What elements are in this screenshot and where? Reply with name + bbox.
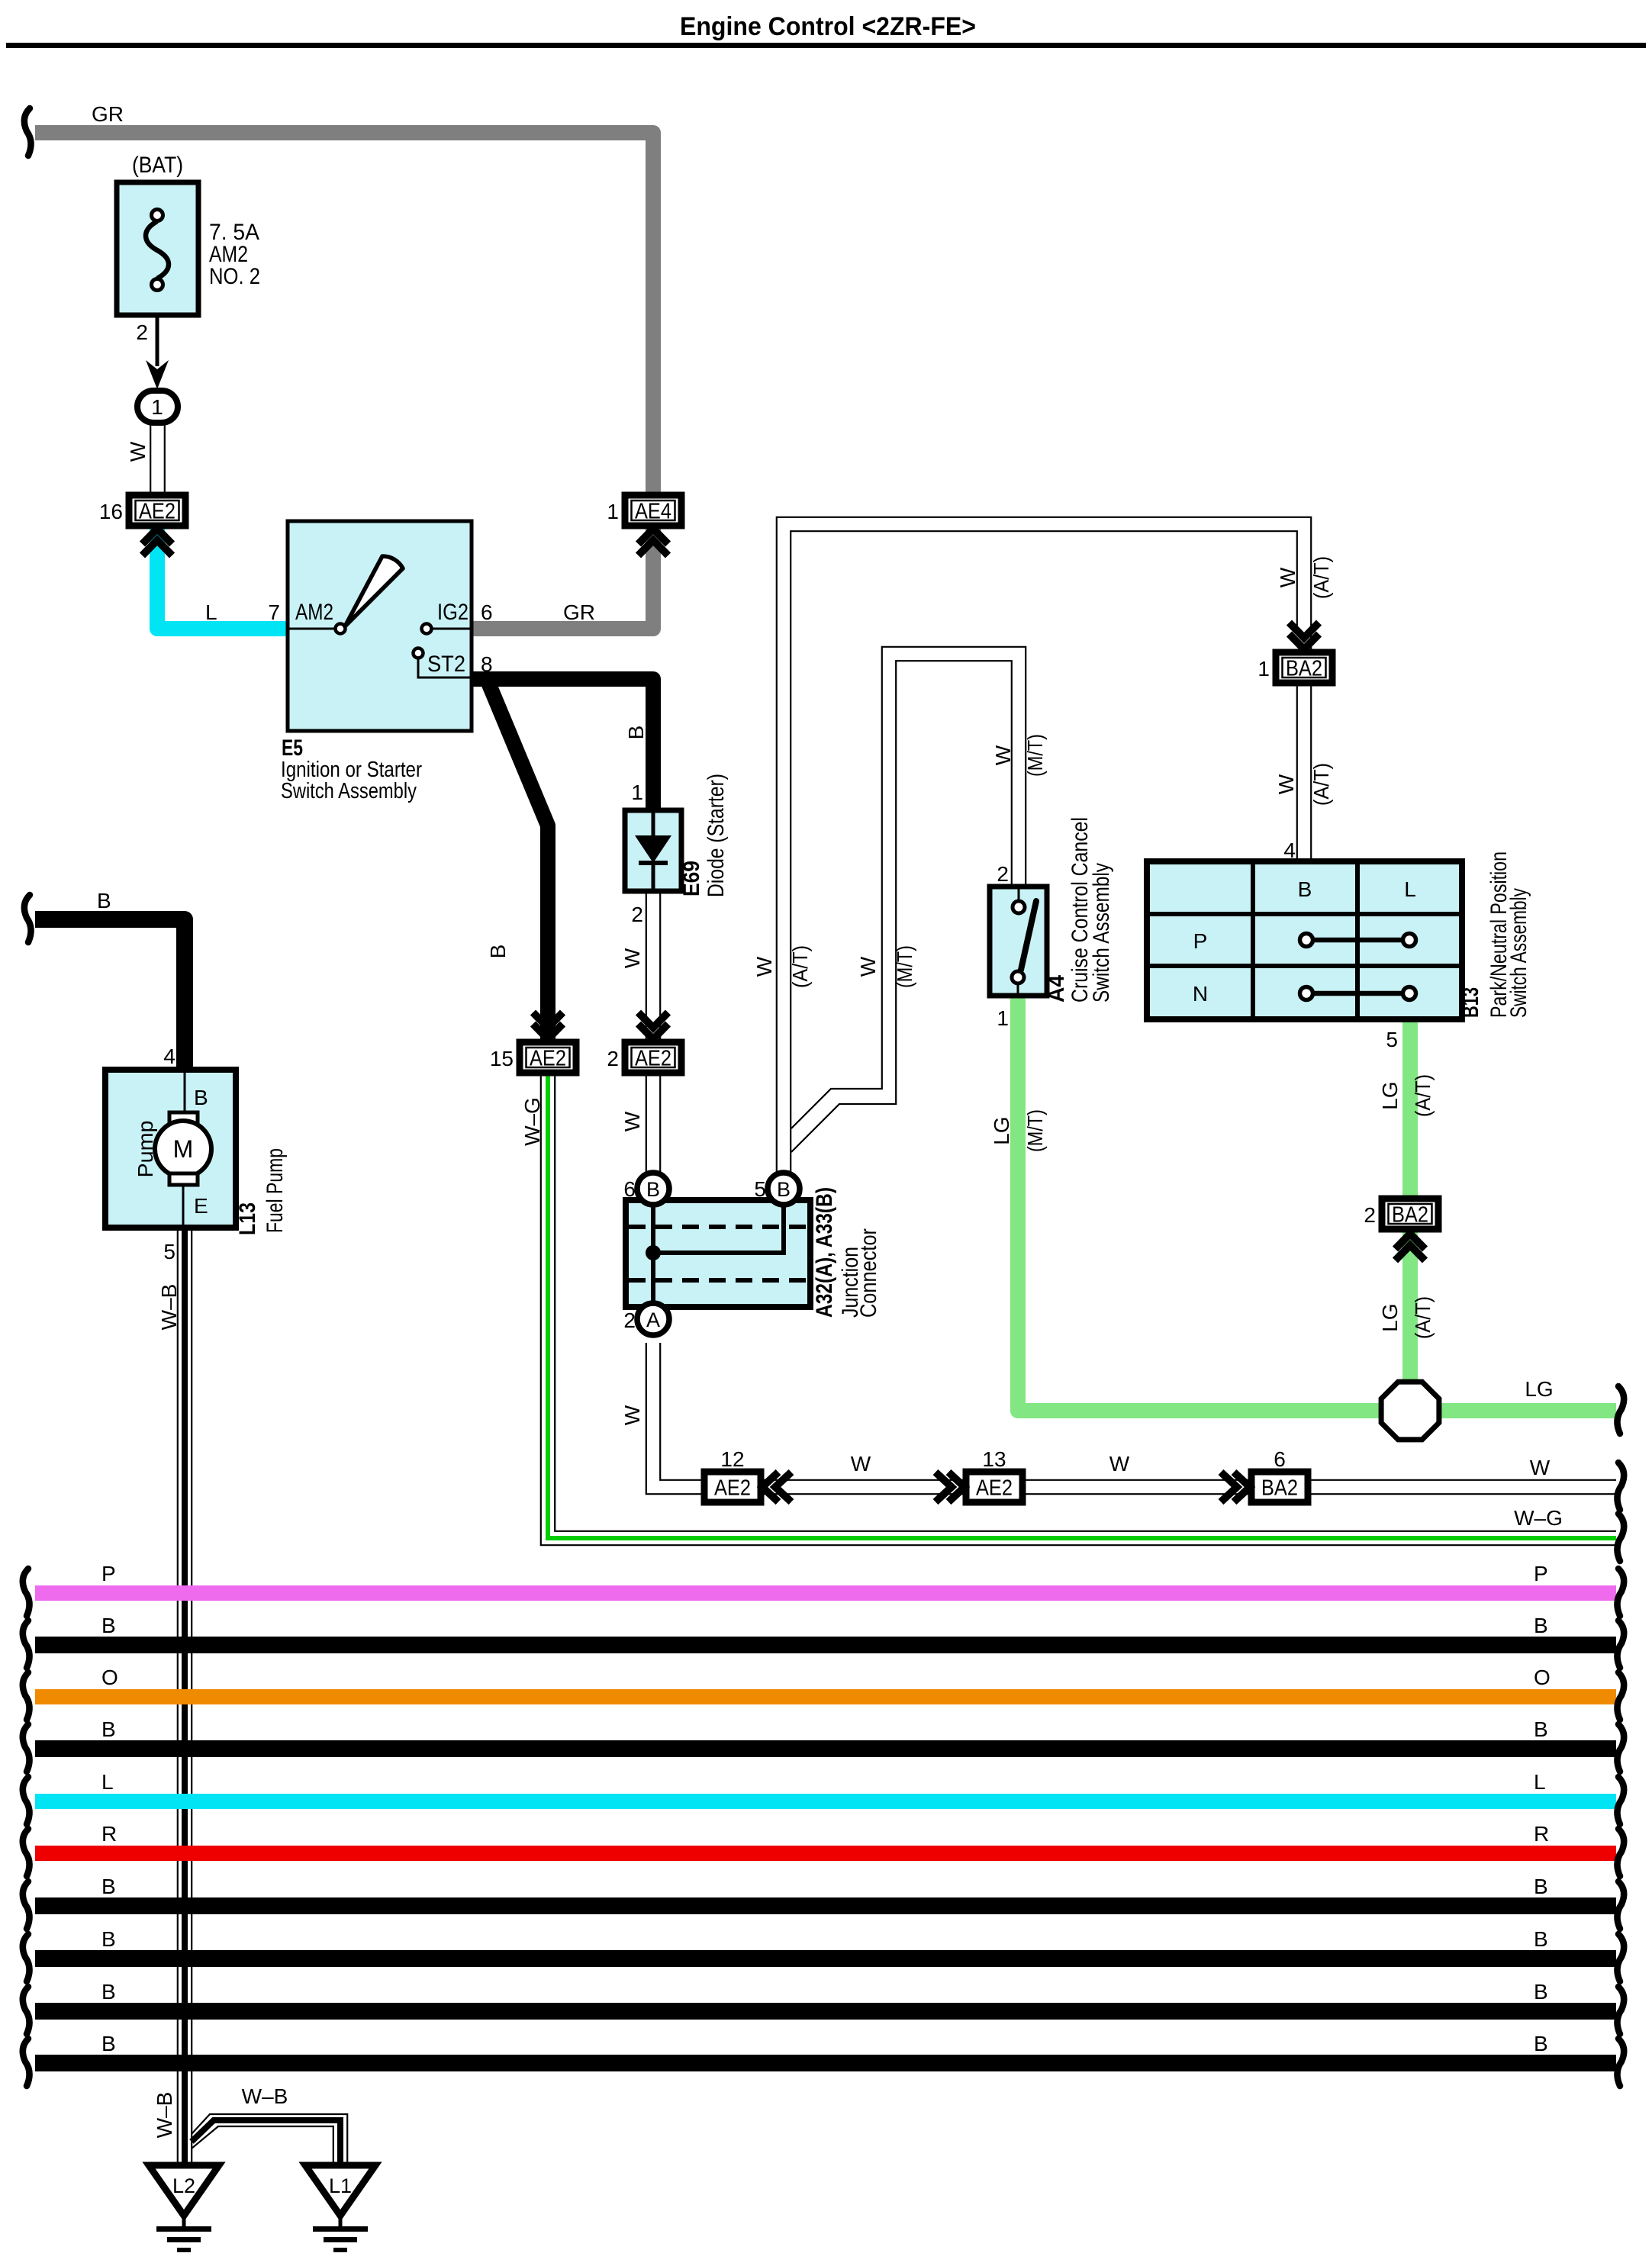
svg-text:1: 1 [631,781,643,804]
svg-text:(A/T): (A/T) [1411,1296,1435,1339]
svg-text:AE4: AE4 [635,500,671,524]
svg-text:2: 2 [136,320,148,344]
svg-text:1: 1 [607,500,619,523]
svg-text:E69: E69 [679,861,704,896]
svg-text:W: W [856,956,880,977]
svg-text:5: 5 [163,1240,176,1263]
svg-text:1: 1 [1258,657,1270,681]
svg-text:L: L [205,600,217,624]
svg-text:W–G: W–G [1514,1506,1563,1530]
svg-text:O: O [101,1666,118,1689]
svg-text:W: W [752,956,776,977]
svg-text:1: 1 [151,395,163,419]
svg-text:BA2: BA2 [1286,657,1322,681]
svg-text:13: 13 [982,1447,1006,1471]
svg-text:B: B [1534,2032,1548,2055]
svg-text:A32(A), A33(B): A32(A), A33(B) [812,1187,837,1318]
svg-text:W: W [620,948,644,968]
svg-text:7: 7 [268,600,280,624]
svg-text:6: 6 [481,600,493,624]
svg-text:AE2: AE2 [530,1047,566,1071]
svg-text:12: 12 [720,1447,744,1471]
svg-text:P: P [1534,1562,1548,1585]
svg-text:A4: A4 [1044,975,1069,1003]
svg-text:B: B [1534,1614,1548,1637]
svg-text:L2: L2 [172,2174,195,2197]
svg-text:IG2: IG2 [437,600,469,625]
svg-text:(M/T): (M/T) [1023,734,1047,777]
svg-text:Switch Assembly: Switch Assembly [1506,888,1531,1018]
svg-text:BA2: BA2 [1261,1476,1298,1501]
svg-text:W: W [1109,1452,1130,1476]
svg-text:W: W [991,745,1015,765]
svg-text:6: 6 [1274,1447,1286,1471]
svg-text:R: R [101,1822,117,1846]
svg-text:B: B [1534,1980,1548,2004]
svg-text:B: B [101,1927,116,1951]
svg-text:AE2: AE2 [635,1047,671,1071]
svg-text:Diode (Starter): Diode (Starter) [704,774,729,897]
svg-text:4: 4 [163,1044,176,1068]
svg-text:L: L [1404,877,1416,901]
svg-text:AE2: AE2 [976,1476,1013,1501]
svg-text:Switch Assembly: Switch Assembly [281,779,417,803]
svg-text:B: B [1534,1927,1548,1951]
svg-text:Fuel Pump: Fuel Pump [262,1148,288,1233]
svg-text:ST2: ST2 [427,652,465,677]
svg-text:AE2: AE2 [714,1476,751,1501]
svg-text:W: W [1274,774,1298,794]
svg-text:2: 2 [1364,1203,1376,1227]
svg-text:B: B [101,1717,116,1741]
svg-text:1: 1 [997,1006,1009,1030]
svg-text:B: B [101,1614,116,1637]
svg-text:M: M [173,1135,194,1163]
svg-text:R: R [1534,1822,1549,1846]
svg-text:NO. 2: NO. 2 [209,264,260,289]
svg-text:4: 4 [1283,838,1296,862]
svg-text:W: W [620,1405,644,1425]
svg-text:B13: B13 [1458,987,1483,1018]
svg-text:(A/T): (A/T) [1411,1074,1435,1117]
svg-text:O: O [1534,1666,1551,1689]
svg-text:(BAT): (BAT) [132,153,183,178]
svg-text:Pump: Pump [134,1121,157,1178]
svg-text:Engine Control <2ZR-FE>: Engine Control <2ZR-FE> [680,12,976,41]
svg-text:B: B [101,1980,116,2004]
svg-text:L: L [101,1770,114,1794]
svg-text:P: P [101,1562,116,1585]
svg-text:N: N [1193,982,1208,1006]
svg-text:2: 2 [631,903,643,926]
svg-text:B: B [97,889,111,913]
svg-text:B: B [646,1178,660,1201]
svg-text:L: L [1534,1770,1546,1794]
svg-text:5: 5 [754,1177,766,1201]
svg-text:W: W [620,1111,644,1131]
svg-text:W–B: W–B [157,1284,181,1331]
svg-text:2: 2 [997,862,1009,886]
svg-text:15: 15 [490,1047,514,1070]
svg-text:L1: L1 [329,2174,352,2197]
svg-text:L13: L13 [235,1202,260,1235]
svg-text:BA2: BA2 [1392,1203,1428,1228]
svg-text:A: A [646,1308,660,1331]
svg-text:GR: GR [563,600,595,624]
svg-text:E: E [194,1194,208,1218]
svg-text:5: 5 [1386,1028,1398,1051]
svg-text:2: 2 [623,1308,636,1332]
svg-text:LG: LG [1378,1081,1402,1109]
svg-text:(A/T): (A/T) [788,945,812,988]
svg-text:AE2: AE2 [139,500,176,524]
svg-text:(M/T): (M/T) [1023,1109,1047,1152]
svg-text:Switch Assembly: Switch Assembly [1089,863,1114,1003]
svg-text:B: B [1298,877,1312,901]
svg-text:W–B: W–B [242,2084,288,2108]
svg-text:(M/T): (M/T) [893,945,916,988]
svg-text:W–B: W–B [153,2092,176,2139]
svg-text:GR: GR [92,102,124,126]
svg-text:LG: LG [1378,1303,1402,1331]
svg-text:B: B [194,1086,208,1109]
svg-text:6: 6 [623,1177,636,1201]
svg-text:W: W [1530,1456,1551,1479]
svg-text:W: W [851,1452,871,1476]
svg-text:AM2: AM2 [295,600,333,625]
svg-text:8: 8 [481,652,493,676]
svg-text:B: B [1534,1717,1548,1741]
svg-text:W–G: W–G [520,1097,544,1146]
svg-text:16: 16 [99,500,123,523]
svg-text:LG: LG [990,1116,1013,1144]
svg-text:B: B [101,2032,116,2055]
svg-text:LG: LG [1525,1377,1553,1401]
svg-text:P: P [1193,929,1208,953]
svg-text:B: B [777,1178,791,1201]
svg-text:2: 2 [607,1047,619,1070]
svg-text:Connector: Connector [856,1228,881,1318]
svg-text:B: B [486,945,510,959]
svg-text:W: W [126,441,150,462]
svg-text:(A/T): (A/T) [1309,763,1333,806]
svg-text:B: B [1534,1875,1548,1898]
svg-text:B: B [624,726,648,740]
svg-text:B: B [101,1875,116,1898]
svg-text:(A/T): (A/T) [1309,556,1333,599]
svg-text:W: W [1276,567,1299,587]
